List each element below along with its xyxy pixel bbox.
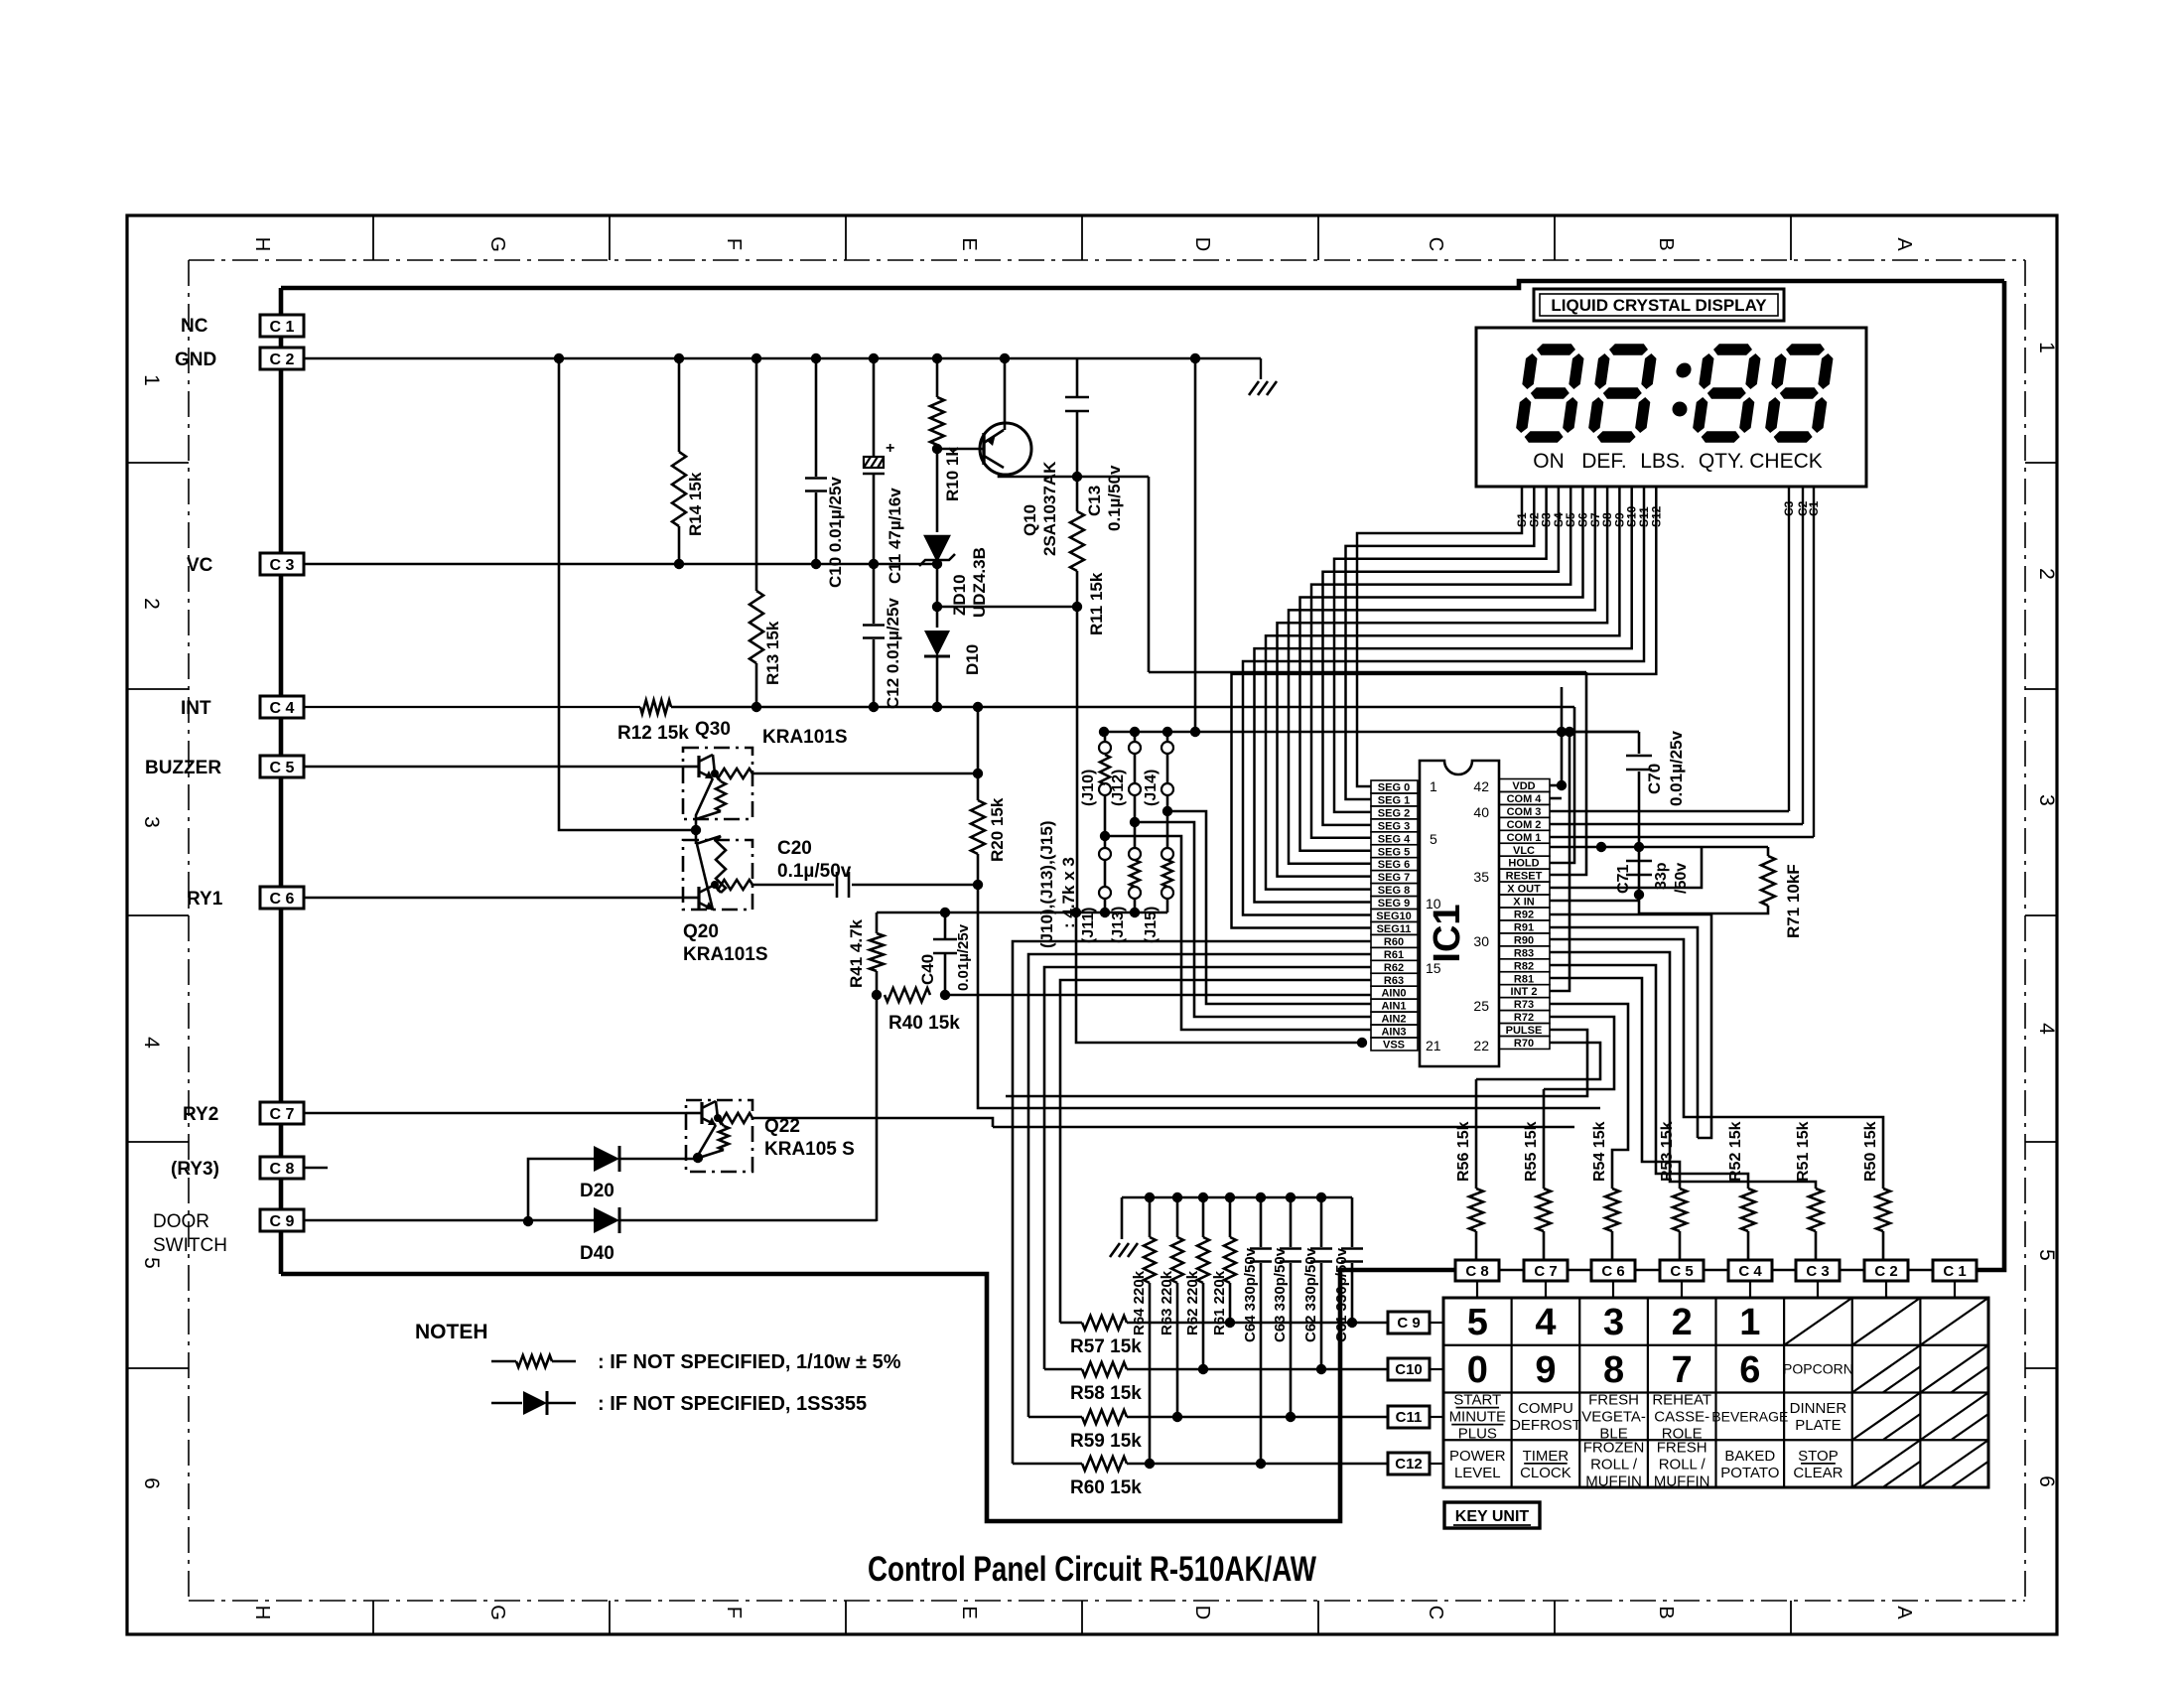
svg-text:DEFROST: DEFROST xyxy=(1510,1417,1581,1434)
svg-text:6: 6 xyxy=(140,1477,163,1489)
svg-text:C63 330p/50v: C63 330p/50v xyxy=(1272,1247,1289,1342)
svg-text:C: C xyxy=(1425,1606,1446,1619)
border section ticks xyxy=(127,215,2057,1634)
svg-text:G: G xyxy=(486,236,508,252)
svg-text:5: 5 xyxy=(1467,1302,1488,1343)
connector C9 box (DOOR) xyxy=(260,1209,304,1231)
svg-text:VEGETA-: VEGETA- xyxy=(1581,1409,1646,1426)
svg-text:INT: INT xyxy=(181,698,211,719)
wire R11 bottom link to D10 column xyxy=(937,606,1077,609)
svg-text:15: 15 xyxy=(1426,960,1441,976)
svg-text:D40: D40 xyxy=(580,1243,614,1264)
svg-text:CHECK: CHECK xyxy=(1749,450,1823,473)
svg-text:IC1: IC1 xyxy=(1427,904,1468,962)
svg-text:SEG 2: SEG 2 xyxy=(1378,807,1410,819)
svg-text:7: 7 xyxy=(1672,1349,1693,1391)
svg-text:R20 15k: R20 15k xyxy=(988,797,1007,862)
resistor R51 15k xyxy=(1809,1189,1823,1231)
svg-text:4: 4 xyxy=(1535,1302,1556,1343)
svg-text:START: START xyxy=(1453,1392,1501,1409)
node INT junctions xyxy=(751,702,761,712)
svg-text:PULSE: PULSE xyxy=(1506,1025,1543,1037)
connector C2 box (GND) xyxy=(260,348,304,369)
wire keypad connectors to table xyxy=(1476,1281,1478,1298)
svg-text:1: 1 xyxy=(1739,1302,1760,1343)
svg-text:SEG 0: SEG 0 xyxy=(1378,782,1410,794)
wire Q22 out under line xyxy=(993,1126,1574,1129)
svg-text:SEG 3: SEG 3 xyxy=(1378,820,1410,832)
svg-text:C 3: C 3 xyxy=(1806,1263,1829,1280)
svg-text:R53 15k: R53 15k xyxy=(1659,1121,1676,1182)
wire main outline left connector bus xyxy=(279,288,284,1274)
resistor R54 15k xyxy=(1605,1189,1619,1231)
svg-text:C12: C12 xyxy=(1395,1456,1423,1473)
svg-text:8: 8 xyxy=(1603,1349,1624,1391)
svg-text:SEG 1: SEG 1 xyxy=(1378,794,1410,806)
box LIQUID CRYSTAL DISPLAY label xyxy=(1534,289,1784,321)
svg-text:COM 2: COM 2 xyxy=(1507,819,1542,831)
svg-text:KRA101S: KRA101S xyxy=(762,727,848,748)
svg-text:C 5: C 5 xyxy=(1670,1263,1693,1280)
svg-text:R71 10kF: R71 10kF xyxy=(1784,864,1803,938)
capacitor C64 330p/50v xyxy=(1260,1197,1263,1247)
svg-text:1: 1 xyxy=(1430,778,1437,794)
wire RESET riser from collector line xyxy=(1148,477,1151,672)
svg-text:R50 15k: R50 15k xyxy=(1862,1121,1879,1182)
svg-text:COM 4: COM 4 xyxy=(1507,793,1543,805)
svg-text:3: 3 xyxy=(140,816,163,828)
svg-text:R52 15k: R52 15k xyxy=(1727,1121,1744,1182)
resistor R59 15k row to C11 xyxy=(1028,1416,1082,1419)
wire IC R63 strobe to R57 row xyxy=(1060,980,1371,1323)
svg-text:VSS: VSS xyxy=(1383,1040,1405,1052)
svg-text:BAKED: BAKED xyxy=(1724,1448,1775,1465)
transistor Q10 2SA1037AK xyxy=(980,423,1031,475)
capacitor C10 0.01u/25v (GND to VC) xyxy=(815,358,818,477)
svg-text:GND: GND xyxy=(175,350,216,370)
svg-text:LBS.: LBS. xyxy=(1640,450,1686,473)
wire R73 line to column R54 xyxy=(1550,1004,1628,1189)
svg-text:ROLL /: ROLL / xyxy=(1659,1456,1706,1473)
svg-text:S12: S12 xyxy=(1649,505,1663,527)
wire LCD segment lines S1-S12 staircase xyxy=(1357,487,1522,786)
svg-text:E: E xyxy=(958,237,980,250)
svg-text:C 9: C 9 xyxy=(270,1213,295,1230)
svg-text:BUZZER: BUZZER xyxy=(145,758,221,778)
wire Q10 collector line to RESET riser xyxy=(999,473,1149,477)
svg-text:33p: 33p xyxy=(1653,862,1670,890)
wire BUZZER line C5 to Q30 xyxy=(304,766,683,769)
resistor R64 220k xyxy=(1149,1197,1152,1237)
svg-text:R59 15k: R59 15k xyxy=(1070,1431,1142,1452)
wire R83 line to column R51 xyxy=(1550,952,1816,1189)
resistor R14 15k (GND to VC) xyxy=(678,358,681,452)
connector C5 box (BUZZER) xyxy=(260,756,304,777)
connector keypad C10 box xyxy=(1388,1358,1430,1380)
wire RESET line y677 from collector riser xyxy=(1149,671,1586,674)
wire R40 line to AIN xyxy=(945,994,1371,997)
connector keypad C12 box xyxy=(1388,1453,1430,1474)
connector C4 box (INT) xyxy=(260,696,304,718)
wire main outline bottom run to key unit xyxy=(281,1270,1455,1521)
wire jumper tap to AIN3 riser xyxy=(1105,836,1371,1030)
svg-text:C 8: C 8 xyxy=(270,1161,295,1178)
svg-text:R83: R83 xyxy=(1514,947,1534,959)
svg-text:C 2: C 2 xyxy=(270,351,295,368)
svg-text:X IN: X IN xyxy=(1513,897,1534,909)
svg-text:SEG11: SEG11 xyxy=(1377,923,1412,935)
svg-text:C12 0.01µ/25v: C12 0.01µ/25v xyxy=(884,598,902,709)
svg-text:6: 6 xyxy=(2035,1475,2058,1487)
svg-text:SEG 4: SEG 4 xyxy=(1378,833,1411,845)
svg-text:R51 15k: R51 15k xyxy=(1795,1121,1812,1182)
svg-text:(J15): (J15) xyxy=(1143,907,1160,943)
node VDD rail junctions xyxy=(1099,727,1109,737)
wire jumper tap to AIN1 riser xyxy=(1167,811,1371,1004)
capacitor C71 33p/50v xyxy=(1626,860,1652,863)
node XIN junction xyxy=(1634,890,1644,900)
svg-text:R10 1k: R10 1k xyxy=(943,447,962,501)
svg-text:DEF.: DEF. xyxy=(1581,450,1627,473)
svg-text:AIN3: AIN3 xyxy=(1381,1027,1406,1039)
svg-text:R41 4.7k: R41 4.7k xyxy=(847,918,866,988)
border outer frame xyxy=(127,215,2057,1634)
svg-text:4: 4 xyxy=(140,1037,163,1049)
box LCD outline xyxy=(1476,328,1866,487)
svg-text:C11: C11 xyxy=(1396,1409,1423,1426)
wire XIN pin line xyxy=(1550,900,1639,903)
box KEY UNIT label xyxy=(1444,1502,1540,1528)
svg-text:B: B xyxy=(1655,1606,1677,1618)
wire GND rail from C2 xyxy=(304,357,1261,360)
svg-text:KRA105 S: KRA105 S xyxy=(764,1139,855,1160)
wire Q30 output to bundle xyxy=(752,772,978,775)
wire DOOR SWITCH line C9 xyxy=(304,1219,594,1222)
svg-text:F: F xyxy=(723,1607,745,1618)
wire C9 branch riser to D20 xyxy=(528,1159,594,1221)
svg-text:R40 15k: R40 15k xyxy=(888,1013,960,1034)
wire VLC pin line xyxy=(1550,846,1702,849)
transistor Q30 KRA101S (dash-dot box) xyxy=(683,748,752,819)
svg-text:D: D xyxy=(1191,237,1213,251)
diode D20 xyxy=(594,1146,619,1172)
wire R90 line to column R50 xyxy=(1550,939,1883,1189)
svg-text:FRESH: FRESH xyxy=(1588,1392,1639,1409)
svg-text:RY2: RY2 xyxy=(183,1104,218,1125)
legend diode symbol xyxy=(491,1402,522,1405)
capacitor C12 0.01u/25v (VC to INT) xyxy=(873,564,876,624)
svg-text:HOLD: HOLD xyxy=(1508,858,1539,870)
svg-text:0.01µ/25v: 0.01µ/25v xyxy=(1667,730,1686,806)
svg-text:SEG 9: SEG 9 xyxy=(1378,898,1410,910)
node GND rail junctions xyxy=(554,353,564,363)
svg-text:H: H xyxy=(251,1606,273,1619)
wire RY2 line C7 to Q22 xyxy=(304,1112,686,1115)
svg-text:R11 15k: R11 15k xyxy=(1087,572,1106,635)
resistor R13 15k (GND to INT) xyxy=(755,358,758,591)
svg-text:C 2: C 2 xyxy=(1874,1263,1897,1280)
svg-text:5: 5 xyxy=(1430,831,1437,847)
svg-text:0.1µ/50v: 0.1µ/50v xyxy=(1105,465,1124,531)
svg-text:Q20: Q20 xyxy=(683,921,719,942)
svg-text:1: 1 xyxy=(140,374,163,386)
svg-text:9: 9 xyxy=(1535,1349,1556,1391)
svg-text:R55 15k: R55 15k xyxy=(1523,1121,1540,1182)
connector keypad C7 box xyxy=(1524,1260,1568,1281)
svg-text:R54 15k: R54 15k xyxy=(1591,1121,1608,1182)
svg-text:Q10: Q10 xyxy=(1021,504,1039,536)
IC1 right pin boxes VDD..R70 xyxy=(1499,779,1550,792)
svg-text:/50v: /50v xyxy=(1673,863,1690,894)
svg-text:C 6: C 6 xyxy=(270,891,295,908)
svg-text:C70: C70 xyxy=(1645,764,1664,794)
svg-text:R56 15k: R56 15k xyxy=(1455,1121,1472,1182)
connector keypad C1 box xyxy=(1933,1260,1977,1281)
svg-text:SEG 8: SEG 8 xyxy=(1378,885,1410,897)
wire R55 column feed xyxy=(1543,1089,1546,1189)
IC IC1 body xyxy=(1420,761,1499,1066)
resistor R63 220k xyxy=(1176,1197,1179,1237)
LCD colon dots xyxy=(1675,363,1692,378)
svg-text:R57 15k: R57 15k xyxy=(1070,1336,1142,1357)
svg-text:COM 1: COM 1 xyxy=(1507,832,1542,844)
svg-text:R73: R73 xyxy=(1514,999,1534,1011)
key matrix diagonal blank cells xyxy=(1784,1298,1988,1487)
wire PULSE wrap line xyxy=(1006,1030,1587,1096)
wire COM4 stub xyxy=(1550,797,1562,800)
svg-text:SEG 6: SEG 6 xyxy=(1378,859,1410,871)
svg-text:B: B xyxy=(1655,237,1677,250)
svg-text:VLC: VLC xyxy=(1513,845,1535,857)
resistor R11 15k xyxy=(1076,477,1079,511)
resistor R52 15k xyxy=(1741,1189,1755,1231)
svg-text:C 5: C 5 xyxy=(270,760,295,776)
wire R81 line to column R53 xyxy=(1550,978,1680,1189)
svg-text:VC: VC xyxy=(187,555,213,576)
resistor R10 1k xyxy=(936,358,939,397)
svg-text:SEG 5: SEG 5 xyxy=(1378,846,1410,858)
svg-text:E: E xyxy=(958,1606,980,1618)
svg-text:22: 22 xyxy=(1473,1038,1489,1053)
svg-text:0.1µ/50v: 0.1µ/50v xyxy=(777,861,852,882)
svg-text:F: F xyxy=(723,238,745,250)
resistor R58 15k row to C10 xyxy=(1044,1368,1082,1371)
svg-text:H: H xyxy=(251,237,273,251)
svg-text:C 4: C 4 xyxy=(270,700,295,717)
svg-text:R13 15k: R13 15k xyxy=(763,621,782,685)
resistor R71 10kF xyxy=(1767,847,1770,856)
svg-text:C11 47µ/16v: C11 47µ/16v xyxy=(886,488,904,584)
svg-text:C3: C3 xyxy=(1782,500,1796,516)
svg-text:C 8: C 8 xyxy=(1465,1263,1488,1280)
connector keypad C6 box xyxy=(1591,1260,1635,1281)
resistor R41 4.7k xyxy=(876,912,879,933)
svg-text:2: 2 xyxy=(140,598,163,610)
connector keypad C3 box xyxy=(1796,1260,1840,1281)
capacitor C13 0.1u/50v xyxy=(1076,358,1079,396)
svg-text:(J12): (J12) xyxy=(1110,770,1127,806)
svg-text:R62: R62 xyxy=(1384,962,1404,974)
svg-text:CLEAR: CLEAR xyxy=(1793,1465,1843,1481)
resistor R55 15k xyxy=(1537,1189,1551,1231)
svg-text:PLATE: PLATE xyxy=(1795,1417,1841,1434)
capacitor C40 0.01u/25v xyxy=(940,908,950,917)
svg-text:MUFFIN: MUFFIN xyxy=(1585,1473,1642,1489)
svg-text:3: 3 xyxy=(2035,794,2058,806)
svg-text:C 3: C 3 xyxy=(270,557,295,574)
svg-text:+: + xyxy=(886,440,894,457)
legend resistor symbol xyxy=(491,1360,516,1363)
wire jumper mid links and taps xyxy=(1104,795,1107,848)
node Q30/Q20 common xyxy=(691,825,701,835)
svg-text:C: C xyxy=(1425,237,1446,251)
capacitor C11 47u/16v electrolytic (GND to VC) xyxy=(873,358,876,457)
wire GND feed to Q30/Q20 (x563) xyxy=(559,358,696,830)
svg-text:SEG10: SEG10 xyxy=(1376,911,1411,922)
resistor R20 15k (INT line down to C20 node) xyxy=(977,707,980,800)
svg-text:(J10): (J10) xyxy=(1080,770,1097,806)
svg-text:CLOCK: CLOCK xyxy=(1520,1465,1571,1481)
svg-text:C10: C10 xyxy=(1395,1361,1423,1378)
wire INT line from C4 xyxy=(304,706,640,708)
svg-text:AIN0: AIN0 xyxy=(1381,988,1406,1000)
wire COM1 to LCD C1 xyxy=(1550,836,1814,839)
svg-text:MINUTE: MINUTE xyxy=(1449,1409,1507,1426)
wire COM2 to LCD C2 xyxy=(1550,823,1803,826)
svg-text:D10: D10 xyxy=(963,644,982,675)
svg-text:(J10),(J13),(J15): (J10),(J13),(J15) xyxy=(1037,820,1056,948)
node D20 junction on C9 riser xyxy=(523,1216,533,1226)
svg-text:COM 3: COM 3 xyxy=(1507,806,1542,818)
box key matrix table xyxy=(1443,1298,1988,1487)
resistor R50 15k xyxy=(1876,1189,1890,1231)
wire COM3 to LCD C3 xyxy=(1550,810,1789,813)
capacitor C61 330p/50v xyxy=(1351,1196,1354,1199)
svg-text:C13: C13 xyxy=(1085,486,1104,516)
connector keypad C8 box xyxy=(1455,1260,1499,1281)
svg-text:R61 220k: R61 220k xyxy=(1211,1270,1228,1335)
svg-text:C 1: C 1 xyxy=(1943,1263,1966,1280)
wire Q22 output xyxy=(752,1118,993,1127)
svg-text:SWITCH: SWITCH xyxy=(153,1235,227,1256)
diode D40 xyxy=(594,1207,619,1233)
svg-text:ON: ON xyxy=(1533,450,1565,473)
connector keypad C11 box xyxy=(1388,1406,1430,1428)
svg-text:2: 2 xyxy=(1672,1302,1693,1343)
LCD 7-segment digits 88:88 xyxy=(1514,344,1585,443)
connector keypad C5 box xyxy=(1660,1260,1704,1281)
svg-text:D20: D20 xyxy=(580,1181,614,1201)
svg-text:10: 10 xyxy=(1426,896,1441,912)
svg-text:R60: R60 xyxy=(1384,936,1404,948)
svg-text:2: 2 xyxy=(2035,568,2058,580)
svg-text:POPCORN: POPCORN xyxy=(1783,1361,1853,1377)
svg-text:DOOR: DOOR xyxy=(153,1211,209,1232)
svg-text:C 9: C 9 xyxy=(1397,1315,1420,1332)
wire VC rail from C3 xyxy=(304,563,938,565)
svg-text:5: 5 xyxy=(2035,1249,2058,1261)
svg-text:A: A xyxy=(1893,1606,1915,1619)
svg-text:2SA1037AK: 2SA1037AK xyxy=(1040,461,1059,556)
jumper group bottom (J11),(J13),(J15) xyxy=(1099,848,1111,860)
svg-text:R63: R63 xyxy=(1384,975,1404,987)
svg-text:: IF NOT SPECIFIED, 1/10w ± 5: : IF NOT SPECIFIED, 1/10w ± 5% xyxy=(598,1351,901,1373)
svg-text:ROLL /: ROLL / xyxy=(1590,1456,1638,1473)
wire R56 column feed xyxy=(1475,1079,1478,1189)
wire (RY3) C8 stub xyxy=(304,1167,328,1170)
svg-text:MUFFIN: MUFFIN xyxy=(1654,1473,1710,1489)
svg-text:R92: R92 xyxy=(1514,910,1534,921)
wire XOUT to R71 xyxy=(1550,847,1702,888)
svg-text:C1: C1 xyxy=(1807,500,1821,516)
wire HOLD riser xyxy=(1550,707,1574,863)
svg-text:40: 40 xyxy=(1473,804,1489,820)
connector C1 box (NC) xyxy=(260,315,304,337)
svg-text:G: G xyxy=(486,1605,508,1620)
svg-text:C20: C20 xyxy=(777,838,812,859)
svg-text:VDD: VDD xyxy=(1512,780,1535,792)
zener diode ZD10 UDZ4.3B (R10 node to VC) xyxy=(936,449,939,532)
capacitor C20 0.1u/50v xyxy=(752,884,834,887)
jumper group top (J10),(J12),(J14) xyxy=(1104,732,1107,743)
svg-text:R14 15k: R14 15k xyxy=(686,472,705,536)
svg-text:QTY.: QTY. xyxy=(1699,450,1744,473)
wire VDD pin to C70 rail xyxy=(1550,784,1562,787)
capacitor C63 330p/50v xyxy=(1290,1197,1293,1247)
svg-text:RY1: RY1 xyxy=(187,889,223,910)
svg-text:A: A xyxy=(1893,237,1915,251)
svg-text:R82: R82 xyxy=(1514,960,1534,972)
node VC rail junctions xyxy=(674,559,684,569)
svg-text:FROZEN: FROZEN xyxy=(1583,1439,1645,1456)
wire VDD rail y737 xyxy=(1104,731,1639,733)
IC1 left pin boxes SEG0-SEG11,R60-R63,AIN0-AIN3,VSS xyxy=(1371,780,1418,793)
svg-text:1: 1 xyxy=(2035,342,2058,353)
svg-text:AIN2: AIN2 xyxy=(1381,1014,1406,1026)
svg-text:3: 3 xyxy=(1603,1302,1624,1343)
svg-text:BEVERAGE: BEVERAGE xyxy=(1711,1408,1788,1424)
capacitor C70 0.01u/25v xyxy=(1638,732,1641,754)
svg-text:0: 0 xyxy=(1467,1349,1488,1391)
svg-text:R90: R90 xyxy=(1514,934,1534,946)
svg-text:SEG 7: SEG 7 xyxy=(1378,872,1410,884)
transistor Q20 KRA101S (dash-dot box) xyxy=(683,840,752,910)
wire RESET riser xyxy=(1550,672,1586,875)
svg-text:LIQUID CRYSTAL DISPLAY: LIQUID CRYSTAL DISPLAY xyxy=(1551,296,1767,315)
wire keypad connector row links xyxy=(1499,1269,1524,1271)
wire C6x bus y1206 xyxy=(1122,1196,1352,1198)
capacitor C62 330p/50v xyxy=(1320,1197,1323,1247)
wire main outline top rail xyxy=(281,281,2004,288)
svg-text:R91: R91 xyxy=(1514,921,1534,933)
svg-text:C62 330p/50v: C62 330p/50v xyxy=(1302,1247,1319,1342)
connector C7 box (RY2) xyxy=(260,1102,304,1124)
svg-text:POTATO: POTATO xyxy=(1720,1465,1779,1481)
svg-text:R63 220k: R63 220k xyxy=(1159,1270,1175,1335)
svg-text:FRESH: FRESH xyxy=(1657,1439,1707,1456)
svg-text:21: 21 xyxy=(1426,1038,1441,1053)
svg-text:30: 30 xyxy=(1473,933,1489,949)
svg-text:C40: C40 xyxy=(918,954,937,985)
transistor Q22 KRA105 S (dash-dot box) xyxy=(686,1100,752,1172)
svg-text:(J13): (J13) xyxy=(1110,907,1127,943)
svg-text:C 7: C 7 xyxy=(270,1106,295,1123)
svg-text:C 7: C 7 xyxy=(1534,1263,1557,1280)
node R41 bottom xyxy=(872,990,882,1000)
connector C8 box ((RY3)) xyxy=(260,1157,304,1179)
svg-text:KRA101S: KRA101S xyxy=(683,944,768,965)
wire R11 node down to jumper common xyxy=(1076,607,1079,912)
